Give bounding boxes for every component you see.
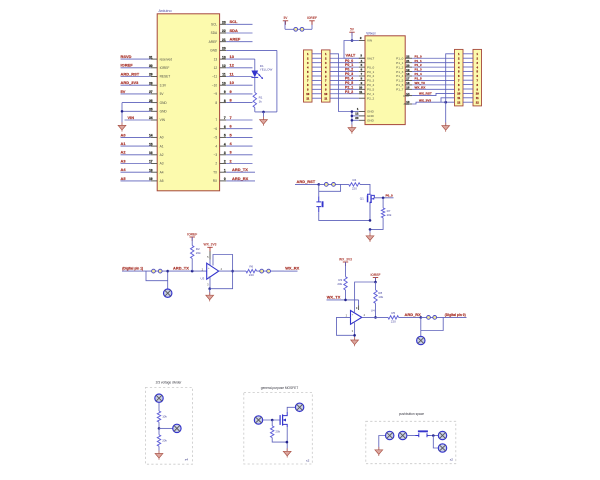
wire net WX_3V3 — [412, 98, 455, 104]
svg-text:AREF: AREF — [230, 37, 241, 42]
svg-text:11: 11 — [222, 73, 226, 77]
svg-text:P1_7: P1_7 — [396, 88, 404, 92]
wire net ARD_TX — [168, 266, 207, 273]
resistor divider 10k — [157, 411, 167, 422]
wire net 5V — [121, 89, 151, 94]
svg-text:ARD_RST: ARD_RST — [297, 179, 316, 184]
solder jumper WX_RX side — [257, 269, 284, 273]
svg-text:4: 4 — [215, 144, 217, 148]
supply IOREF above R2 — [187, 232, 197, 241]
ground below U3 — [206, 292, 214, 301]
wire net Digital pin 1 — [122, 267, 146, 271]
test point pad button input — [399, 431, 407, 439]
wire LED cathode to R1 — [254, 77, 256, 92]
dashed box: pushbutton space — [366, 412, 456, 463]
wire VALT into Wixel pin 3 — [346, 53, 366, 59]
wire gate to pulldown R — [271, 420, 273, 426]
wire U4 V- pin to ground — [352, 323, 355, 340]
svg-text:P0_3: P0_3 — [345, 72, 353, 76]
svg-text:A0: A0 — [160, 136, 164, 140]
wire U3 feedback loop — [210, 255, 234, 289]
transistor general-purpose N-MOSFET — [280, 412, 287, 427]
svg-text:reserved: reserved — [160, 57, 173, 61]
wire Arduino digital net 12 — [226, 63, 252, 68]
svg-text:P1_1: P1_1 — [415, 59, 422, 63]
svg-text:x2: x2 — [450, 458, 454, 462]
svg-text:P1_4: P1_4 — [396, 74, 404, 78]
wire node to TX test point — [166, 270, 169, 289]
wire Arduino GND pins to ground — [121, 103, 151, 126]
svg-text:P1_3: P1_3 — [396, 70, 404, 74]
test point pad button out B — [438, 444, 446, 452]
wire VIN node down to VALT row — [344, 41, 359, 59]
svg-text:P1_5: P1_5 — [396, 79, 404, 83]
svg-text:12: 12 — [222, 64, 226, 68]
svg-text:GND: GND — [367, 114, 375, 118]
svg-text:14: 14 — [406, 92, 410, 96]
svg-text:IOREF: IOREF — [121, 63, 134, 68]
wire net P1_5 — [412, 77, 455, 81]
svg-text:ARD_RX: ARD_RX — [232, 176, 249, 181]
wire net ARD_3V3 — [121, 80, 151, 85]
svg-text:4: 4 — [224, 142, 226, 146]
svg-text:16: 16 — [406, 81, 410, 85]
svg-text:Arduino: Arduino — [159, 9, 172, 13]
pushbutton S1 reset — [316, 196, 323, 212]
wire gate net — [263, 419, 280, 422]
wire jumper to IOREF — [304, 21, 312, 30]
wire Arduino digital net ARD_RX — [226, 176, 255, 181]
wire Arduino digital net SCL — [226, 19, 252, 24]
svg-text:P1_6: P1_6 — [396, 83, 404, 87]
wire node to RX test point — [420, 317, 422, 336]
svg-text:8: 8 — [224, 99, 226, 103]
supply 5V at jumper — [283, 16, 289, 25]
wires left headers to Wixel P0 pins — [330, 58, 365, 98]
svg-text:P0_4: P0_4 — [345, 77, 353, 81]
wire divider to ground — [158, 446, 160, 453]
wire net ARD_RST — [121, 71, 151, 76]
svg-text:13: 13 — [214, 57, 218, 61]
LED D1 YELLOW — [251, 64, 272, 79]
wire net RSVD — [121, 54, 151, 59]
svg-text:12: 12 — [355, 111, 359, 115]
wire 5V supply to VIN node — [351, 32, 354, 42]
connector J2 11-pin header (Wixel mirror row B) — [322, 50, 331, 102]
svg-text:2/3 voltage divider: 2/3 voltage divider — [156, 381, 183, 385]
svg-text:2: 2 — [215, 162, 217, 166]
supply IOREF at jumper — [307, 16, 317, 25]
svg-text:1: 1 — [224, 168, 226, 172]
svg-text:12: 12 — [230, 63, 235, 68]
wire net WX_RX — [284, 266, 300, 271]
wire U4 feedback loop — [337, 317, 356, 336]
wire WX_3V3 to R3 — [345, 262, 347, 277]
svg-text:10: 10 — [359, 85, 363, 89]
wire Arduino digital net ARD_TX — [226, 167, 255, 172]
wire R2 to ARD_TX node — [191, 259, 193, 272]
svg-text:0: 0 — [224, 177, 226, 181]
svg-text:GND: GND — [367, 110, 375, 114]
svg-text:U3: U3 — [200, 277, 204, 281]
test point pad drain — [295, 403, 303, 411]
svg-text:7: 7 — [230, 115, 232, 120]
svg-text:GND: GND — [160, 110, 168, 114]
svg-text:P2_2: P2_2 — [367, 96, 375, 100]
svg-text:SDA: SDA — [230, 28, 239, 33]
svg-text:A2: A2 — [160, 153, 164, 157]
test point pad TX — [164, 289, 172, 297]
svg-text:12: 12 — [457, 101, 460, 105]
wire Wixel GND pins bus — [351, 107, 365, 128]
svg-text:GND: GND — [367, 119, 375, 123]
svg-text:P0_1: P0_1 — [345, 63, 353, 67]
svg-text:IOREF: IOREF — [370, 273, 380, 277]
solder jumper RX — [421, 316, 443, 320]
svg-text:25: 25 — [149, 108, 153, 112]
svg-text:220: 220 — [391, 320, 396, 324]
wire net A5 — [121, 176, 151, 181]
svg-text:ARD_RX: ARD_RX — [405, 312, 422, 317]
svg-text:P0_0: P0_0 — [345, 59, 353, 63]
resistor R7 20k — [381, 208, 392, 218]
wire net A1 — [121, 141, 151, 146]
wire net Digital pin 0 — [443, 313, 466, 317]
svg-text:~9: ~9 — [214, 92, 218, 96]
svg-text:20k: 20k — [275, 430, 280, 434]
svg-text:7: 7 — [224, 116, 226, 120]
svg-text:WX_RX: WX_RX — [285, 266, 299, 271]
wire jumper bypass loop — [319, 184, 341, 191]
wire net P1_3 — [412, 68, 455, 72]
wire Arduino digital net 9 — [226, 89, 252, 94]
wire drain to pad — [287, 407, 295, 412]
dashed box: general-purpose MOSFET — [244, 386, 312, 464]
svg-text:P0_0: P0_0 — [367, 65, 375, 69]
ground below Q1 — [366, 233, 374, 242]
svg-text:IOREF: IOREF — [307, 16, 317, 20]
wire Arduino digital net 6 — [226, 124, 252, 129]
svg-text:IOREF: IOREF — [187, 232, 197, 236]
resistor divider 20k — [157, 435, 167, 446]
svg-text:~3: ~3 — [214, 153, 218, 157]
wire pushbutton to branch node — [428, 434, 438, 437]
connector J1 11-pin header (Wixel mirror row A) — [304, 50, 313, 102]
svg-text:P1_5: P1_5 — [415, 77, 422, 81]
svg-text:21: 21 — [222, 38, 226, 42]
svg-text:220: 220 — [352, 186, 357, 190]
Wixel pin names inside body — [367, 39, 410, 123]
Arduino right pin stubs with pin numbers — [220, 21, 227, 182]
svg-text:21: 21 — [406, 59, 410, 63]
wire source rail to ground — [369, 229, 371, 235]
svg-text:11: 11 — [359, 90, 362, 94]
wire Arduino digital net 5 — [226, 132, 252, 137]
svg-text:VALT: VALT — [367, 56, 374, 60]
test point pad RX — [417, 336, 425, 344]
wire IOREF to R2 — [191, 237, 193, 246]
svg-text:23: 23 — [355, 116, 359, 120]
wire Arduino digital net 3 — [226, 150, 252, 155]
wire net WX_TX — [327, 295, 359, 302]
wire IOREF to R8 — [375, 282, 377, 290]
IC A1 Arduino part body with name label — [157, 9, 219, 191]
svg-text:12: 12 — [214, 66, 218, 70]
svg-text:20k: 20k — [196, 251, 201, 255]
resistor R4 220 — [349, 178, 360, 190]
svg-text:20k: 20k — [162, 438, 167, 442]
wire TX jumper bypass loop — [146, 271, 168, 281]
resistor R6 220 — [246, 265, 257, 278]
ground in divider box — [155, 451, 163, 460]
resistor R3 20k pull-up — [337, 277, 347, 290]
svg-text:P1_2: P1_2 — [415, 63, 422, 67]
svg-text:22: 22 — [222, 29, 226, 33]
op-amp U4 buffer — [346, 309, 375, 325]
svg-text:A1: A1 — [121, 141, 127, 146]
ground below R1 — [260, 112, 268, 126]
wire LED return to GND net — [255, 50, 277, 113]
svg-text:(Digital pin 0): (Digital pin 0) — [445, 313, 466, 317]
svg-text:10: 10 — [230, 80, 234, 85]
svg-text:20: 20 — [406, 63, 410, 67]
svg-text:~5: ~5 — [214, 136, 218, 140]
svg-text:P1_4: P1_4 — [415, 72, 422, 76]
ground below right headers — [442, 123, 450, 132]
wire U3 output to R6 — [219, 270, 246, 272]
wire pulldown to source rail — [272, 438, 287, 443]
wire source to ground — [286, 427, 289, 451]
wire drain to R7 — [382, 198, 384, 208]
wires between right headers — [463, 54, 473, 102]
wire drain node to P0_0 label — [374, 193, 394, 199]
wire left-header GND bus — [330, 54, 352, 112]
svg-text:5: 5 — [224, 134, 226, 138]
svg-text:P0_3: P0_3 — [367, 79, 375, 83]
wire Arduino digital net 2 — [226, 158, 252, 163]
wire Arduino digital net AREF — [226, 37, 252, 42]
wire ground to first pad — [379, 436, 386, 450]
svg-text:10k: 10k — [378, 295, 383, 299]
svg-text:17: 17 — [406, 77, 410, 81]
wires between left headers — [312, 54, 322, 98]
svg-text:WX_RST: WX_RST — [419, 91, 432, 95]
svg-text:ARD_TX: ARD_TX — [173, 266, 189, 271]
wire R8 to output node — [374, 303, 377, 318]
wire Arduino digital net 7 — [226, 115, 252, 120]
svg-text:220: 220 — [249, 273, 254, 277]
svg-text:5V: 5V — [121, 89, 126, 94]
svg-text:GND: GND — [160, 101, 168, 105]
svg-text:P1_0: P1_0 — [415, 54, 422, 58]
svg-text:general-purpose MOSFET: general-purpose MOSFET — [261, 386, 298, 390]
test point pad button out A — [438, 431, 446, 439]
svg-text:R5: R5 — [391, 311, 395, 315]
op-amp U3 buffer — [200, 263, 222, 280]
svg-text:10: 10 — [324, 92, 327, 96]
svg-text:pushbutton space: pushbutton space — [399, 412, 424, 416]
wire WX_TX into U4 input — [356, 300, 359, 310]
svg-text:YELLOW: YELLOW — [260, 68, 273, 72]
svg-text:ARD_TX: ARD_TX — [232, 167, 248, 172]
solder jumper 5V-IOREF — [294, 27, 304, 31]
wire net ARD_RX — [399, 312, 423, 319]
wire node to pushbutton — [318, 184, 320, 196]
svg-text:U4: U4 — [371, 309, 375, 313]
svg-text:20k: 20k — [337, 282, 342, 286]
resistor R2 20k pull-up — [191, 246, 202, 259]
svg-text:A5: A5 — [121, 176, 127, 181]
svg-text:IOREF: IOREF — [160, 66, 170, 70]
svg-text:13: 13 — [230, 54, 235, 59]
wire Arduino digital net 11 — [226, 71, 252, 76]
svg-text:GND: GND — [210, 49, 218, 53]
svg-text:~11: ~11 — [212, 75, 217, 79]
wire Arduino digital net GND — [226, 49, 277, 51]
test point pad button gnd side — [386, 431, 394, 439]
wire Arduino digital net SDA — [226, 28, 252, 33]
svg-text:WX_3V3: WX_3V3 — [339, 257, 352, 261]
svg-text:x4: x4 — [185, 457, 189, 461]
connector J3 12-pin header (Wixel mirror row C) — [455, 49, 464, 106]
svg-text:10: 10 — [457, 92, 460, 96]
svg-text:P0_5: P0_5 — [345, 81, 353, 85]
svg-text:SDA: SDA — [211, 31, 218, 35]
ground below U4 — [351, 337, 359, 346]
svg-text:10: 10 — [476, 92, 479, 96]
ground at Arduino left — [118, 122, 126, 131]
svg-text:10: 10 — [306, 92, 309, 96]
wire net WX_RST — [412, 91, 455, 95]
wire divider mid node — [158, 422, 173, 430]
resistor R8 10k pull-up — [374, 290, 384, 303]
svg-text:P0_1: P0_1 — [367, 70, 375, 74]
wire Arduino digital net 8 — [226, 98, 252, 103]
svg-text:WX_3V3: WX_3V3 — [203, 243, 216, 247]
svg-text:WX_3V3: WX_3V3 — [419, 99, 431, 103]
wire net P1_1 — [412, 59, 455, 63]
wire Arduino digital net 13 — [226, 54, 255, 59]
wire mid node to R lower — [158, 428, 160, 434]
svg-text:10: 10 — [222, 81, 226, 85]
svg-text:R4: R4 — [352, 178, 356, 182]
svg-text:x2: x2 — [306, 458, 310, 462]
svg-text:VIN: VIN — [128, 115, 135, 120]
svg-text:26: 26 — [149, 99, 153, 103]
wire net IOREF — [121, 63, 151, 68]
svg-text:A1: A1 — [160, 144, 164, 148]
wire divider input to R upper — [158, 403, 160, 412]
dashed box: 2/3 voltage divider — [146, 381, 193, 465]
wire pad to pushbutton — [407, 435, 418, 437]
svg-text:SCL: SCL — [211, 23, 217, 27]
svg-text:VALT: VALT — [346, 53, 356, 58]
wire net A0 — [121, 132, 151, 137]
svg-text:6: 6 — [224, 125, 226, 129]
wire U3 V- pin to ground — [207, 277, 211, 295]
svg-text:P0_5: P0_5 — [367, 88, 375, 92]
svg-text:Q1: Q1 — [360, 196, 364, 200]
solder jumper TX — [146, 269, 168, 273]
wire RX jumper bypass loop — [421, 317, 443, 330]
wire net ARD_RST — [295, 179, 320, 186]
wire U3 V+ pin to WX_3V3 — [207, 251, 210, 265]
wire net VIN — [125, 115, 151, 120]
ground below Wixel — [348, 125, 356, 134]
svg-text:22: 22 — [406, 54, 410, 58]
test point pad divider input — [155, 394, 163, 402]
svg-text:P0_0: P0_0 — [386, 193, 393, 197]
svg-text:20k: 20k — [387, 213, 392, 217]
wire Arduino digital net 10 — [226, 80, 252, 85]
svg-text:1k: 1k — [259, 99, 263, 103]
svg-text:20: 20 — [222, 47, 226, 51]
transistor Q1 N-MOSFET — [360, 193, 375, 220]
wire R7 to source rail — [369, 218, 383, 231]
svg-text:3.3V: 3.3V — [160, 83, 167, 87]
svg-text:10k: 10k — [162, 415, 167, 419]
svg-text:VIN: VIN — [160, 118, 166, 122]
wire net A4 — [121, 167, 151, 172]
svg-text:P1_2: P1_2 — [396, 65, 404, 69]
svg-text:12: 12 — [476, 101, 479, 105]
connector J4 12-pin header (Wixel mirror row D) — [473, 49, 482, 106]
wire R3 to WX_TX node — [345, 290, 347, 300]
svg-text:~6: ~6 — [214, 127, 218, 131]
svg-text:9: 9 — [224, 90, 226, 94]
wire 5V to jumper — [285, 21, 294, 30]
svg-text:P1_3: P1_3 — [415, 68, 422, 72]
svg-text:VIN: VIN — [367, 39, 372, 43]
resistor R1 1k — [253, 93, 263, 108]
svg-text:RSVD: RSVD — [121, 54, 132, 59]
wire net P1_4 — [412, 72, 455, 76]
wire net WX_RX — [412, 85, 455, 89]
svg-text:ARD_RST: ARD_RST — [121, 71, 140, 76]
wire U4 output to R5 — [362, 316, 388, 318]
svg-text:P2_2: P2_2 — [345, 90, 353, 94]
svg-text:19: 19 — [406, 68, 410, 72]
svg-text:P2_1: P2_1 — [367, 92, 375, 96]
wire right-header GND bus — [446, 54, 455, 126]
wire net 13 to LED — [254, 59, 256, 70]
svg-text:13: 13 — [222, 55, 226, 59]
svg-text:(Digital pin 1): (Digital pin 1) — [122, 267, 143, 271]
wire IOREF to U4 V+ pin — [355, 278, 377, 313]
Wixel right pin stubs with numbers — [405, 54, 412, 104]
svg-text:A0: A0 — [121, 132, 126, 137]
svg-text:3: 3 — [224, 151, 226, 155]
svg-text:SCL: SCL — [230, 19, 239, 24]
wire VIN node to Wixel pin 2 — [352, 36, 365, 41]
svg-text:P0_2: P0_2 — [345, 68, 353, 72]
wire pushbutton to source rail — [319, 212, 370, 220]
svg-text:ARD_3V3: ARD_3V3 — [121, 80, 140, 85]
svg-text:A4: A4 — [121, 167, 127, 172]
Arduino left pin stubs with pin numbers — [149, 55, 157, 181]
resistor R5 220 — [388, 311, 399, 324]
wire net A2 — [121, 150, 151, 155]
IC U2 Wixel module body with name label — [365, 31, 405, 124]
svg-text:A3: A3 — [160, 162, 164, 166]
wire net A3 — [121, 158, 151, 163]
svg-text:WX_TX: WX_TX — [415, 81, 426, 85]
svg-text:P0_2: P0_2 — [367, 74, 375, 78]
ground in pushbutton box — [375, 447, 383, 456]
solder jumper reset — [319, 183, 349, 187]
svg-text:P1_0: P1_0 — [396, 56, 404, 60]
wire branch down — [433, 436, 438, 449]
